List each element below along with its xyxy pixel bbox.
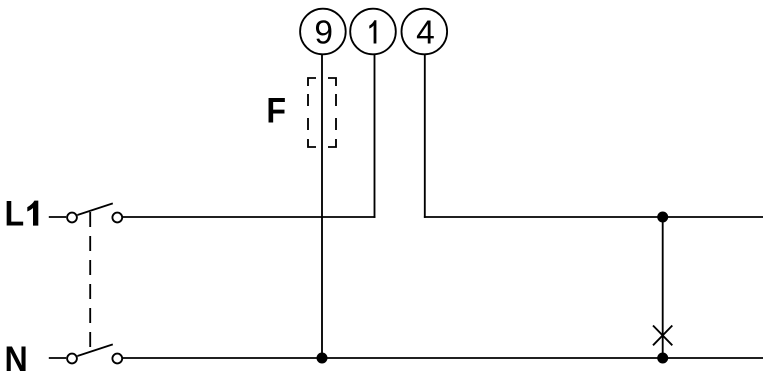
junction dot N terminal 9: [317, 353, 328, 364]
load branch wire L1 to N: [662, 217, 664, 358]
wire terminal 9 to N: [321, 54, 323, 358]
N switch blade: [77, 344, 112, 356]
svg-text:9: 9: [314, 15, 333, 52]
L1 line from terminal 4 to right: [424, 216, 763, 218]
L1 switch contact circle left: [67, 213, 77, 223]
label F: [266, 92, 286, 131]
N switch contact circle right: [112, 354, 122, 364]
wire terminal 4 to L1: [424, 54, 426, 218]
L1 switch blade: [77, 203, 112, 215]
svg-text:L: L: [5, 195, 25, 234]
N line left stub: [49, 357, 66, 359]
L1 line left stub: [49, 216, 66, 218]
switch linkage dashed line: [89, 212, 91, 349]
L1 line to terminal 1: [122, 216, 375, 218]
fuse F dashed box: [308, 78, 336, 147]
terminal 4: [402, 9, 448, 55]
N line to right: [122, 357, 763, 359]
L1 switch contact circle right: [112, 213, 122, 223]
wire terminal 1 to L1: [374, 54, 376, 218]
svg-text:N: N: [5, 341, 28, 380]
terminal 9: [300, 9, 346, 55]
svg-text:4: 4: [416, 15, 435, 52]
junction dot L1 right: [657, 212, 668, 223]
label 1: [369, 20, 376, 43]
svg-text:F: F: [266, 92, 286, 131]
junction dot N right: [657, 353, 668, 364]
label N: [5, 341, 28, 380]
label L1: [5, 195, 25, 234]
clamp X mark: [653, 326, 672, 346]
terminal 1: [350, 9, 396, 55]
N switch contact circle left: [67, 354, 77, 364]
